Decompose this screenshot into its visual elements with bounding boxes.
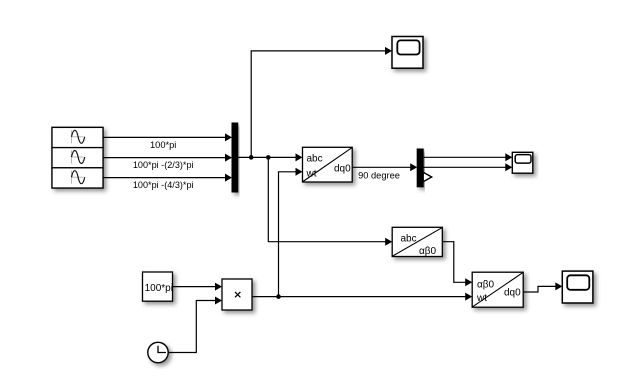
svg-text:abc: abc — [401, 234, 417, 245]
svg-text:100*pi: 100*pi — [150, 140, 176, 150]
svg-text:100*pi: 100*pi — [145, 283, 173, 294]
svg-text:wt: wt — [306, 169, 317, 180]
svg-text:100*pi -(2/3)*pi: 100*pi -(2/3)*pi — [133, 160, 194, 170]
svg-text:dq0: dq0 — [334, 164, 351, 175]
svg-text:αβ0: αβ0 — [419, 246, 437, 257]
svg-text:abc: abc — [307, 154, 323, 165]
svg-text:wt: wt — [476, 293, 487, 304]
svg-text:90 degree: 90 degree — [358, 170, 400, 180]
svg-text:αβ0: αβ0 — [477, 280, 495, 291]
svg-text:100*pi -(4/3)*pi: 100*pi -(4/3)*pi — [133, 180, 194, 190]
svg-text:dq0: dq0 — [504, 288, 521, 299]
